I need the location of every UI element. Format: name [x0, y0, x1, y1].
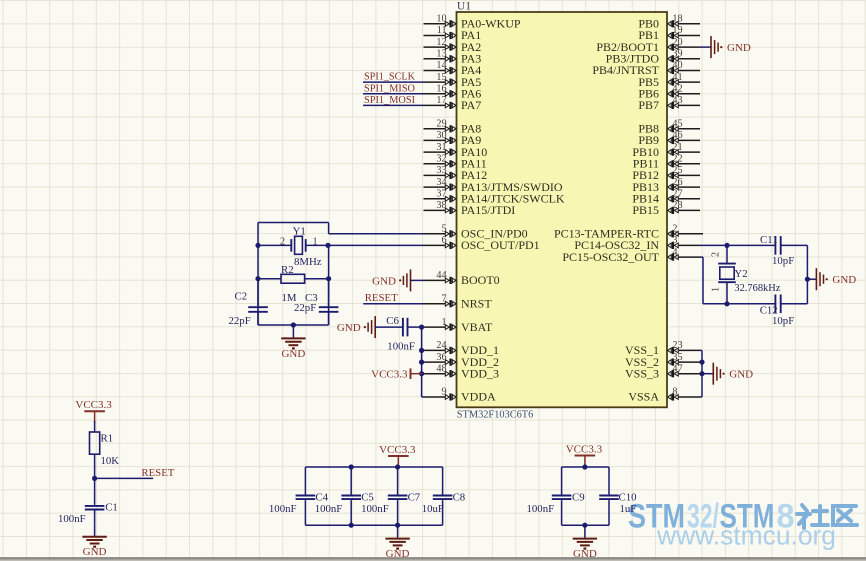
capacitor C2 22pF — [229, 279, 268, 327]
svg-text:18: 18 — [672, 14, 682, 25]
power VCC3.3 at VDD_3 — [371, 368, 421, 380]
wire OSC bottom — [258, 324, 329, 326]
svg-text:23: 23 — [672, 340, 682, 351]
pin 12 left — [424, 37, 456, 51]
svg-text:4: 4 — [672, 247, 677, 258]
wire BOOT0 pin 44 — [411, 279, 424, 281]
svg-text:PC15-OSC32_OUT: PC15-OSC32_OUT — [562, 250, 659, 264]
svg-text:SPI1_MISO: SPI1_MISO — [364, 82, 415, 94]
pin 8 right — [668, 387, 700, 401]
pin 46 right — [668, 130, 700, 144]
junction VCC C7 top — [395, 464, 400, 469]
svg-text:VDDA: VDDA — [461, 390, 496, 404]
svg-text:GND: GND — [727, 42, 751, 54]
pin 48 left — [424, 363, 456, 377]
crystal Y2 32.768kHz — [711, 245, 781, 303]
pin 27 right — [668, 189, 700, 203]
svg-text:GND: GND — [281, 348, 305, 360]
capacitor C5 100nF — [315, 467, 374, 525]
svg-text:16: 16 — [436, 84, 446, 95]
capacitor C10 1uF — [599, 467, 636, 525]
svg-text:NRST: NRST — [461, 296, 492, 310]
power VCC3.3 at R1 — [75, 399, 112, 423]
junction C5 top — [349, 464, 354, 469]
svg-text:15: 15 — [436, 72, 446, 83]
pin 13 left — [424, 49, 456, 63]
pin 47 right — [668, 363, 700, 377]
svg-text:BOOT0: BOOT0 — [461, 273, 500, 287]
svg-text:11: 11 — [437, 25, 447, 36]
svg-text:32.768kHz: 32.768kHz — [734, 282, 780, 294]
svg-text:29: 29 — [436, 119, 446, 130]
svg-text:5: 5 — [442, 224, 447, 235]
wire right vertical — [328, 245, 330, 325]
svg-text:38: 38 — [436, 200, 446, 211]
net label RESET at NRST — [363, 292, 423, 304]
svg-text:2: 2 — [672, 224, 677, 235]
pin 10 left — [424, 14, 456, 28]
junction VSS_2 — [699, 360, 704, 365]
svg-text:Y2: Y2 — [734, 268, 747, 280]
wire VDD_3 pin 48 — [422, 373, 424, 375]
svg-text:100nF: 100nF — [58, 513, 86, 525]
pin 20 right — [668, 37, 700, 51]
pin 41 right — [668, 72, 700, 86]
svg-text:8: 8 — [672, 387, 677, 398]
wire C4-C8 top rail — [305, 466, 442, 468]
wire to Y2 ground — [807, 278, 816, 280]
svg-text:OSC_OUT/PD1: OSC_OUT/PD1 — [461, 238, 540, 252]
svg-text:SPI1_SCLK: SPI1_SCLK — [364, 71, 415, 83]
svg-text:100nF: 100nF — [387, 340, 415, 352]
svg-text:PA7: PA7 — [461, 98, 481, 112]
capacitor C1 100nF — [58, 478, 118, 524]
svg-text:www.stmcu.org: www.stmcu.org — [656, 521, 836, 551]
sheet bottom border — [0, 557, 866, 561]
pin 36 left — [424, 352, 456, 366]
pin 16 left — [424, 84, 456, 98]
svg-text:100nF: 100nF — [269, 503, 297, 515]
pin 34 left — [424, 177, 456, 191]
wire PB2 to ground — [700, 46, 711, 48]
pin 7 left — [424, 293, 456, 307]
svg-text:1uF: 1uF — [620, 503, 637, 515]
svg-text:36: 36 — [436, 352, 446, 363]
ground GND at C6 — [337, 316, 375, 338]
junction RESET node — [92, 476, 97, 481]
svg-text:C10: C10 — [619, 491, 637, 503]
svg-text:19: 19 — [672, 25, 682, 36]
junction right crystal — [325, 243, 330, 248]
wire PC15 down — [700, 257, 703, 304]
junction VSS_3 — [699, 371, 704, 376]
svg-text:47: 47 — [672, 363, 682, 374]
crystal Y1 8MHz — [258, 226, 329, 269]
wire right vertical to ground — [806, 245, 808, 303]
IC U1 STM32F103C6T6 body — [457, 0, 668, 420]
svg-text:30: 30 — [436, 130, 446, 141]
pin 17 left — [424, 95, 456, 109]
wire C9-C10 top rail — [562, 466, 609, 468]
svg-text:9: 9 — [442, 387, 447, 398]
pin 35 right — [668, 352, 700, 366]
svg-text:33: 33 — [436, 165, 446, 176]
junction VCC C9-C10 top — [582, 464, 587, 469]
junction left crystal — [255, 243, 260, 248]
svg-text:39: 39 — [672, 49, 682, 60]
svg-text:14: 14 — [436, 60, 446, 71]
capacitor C9 100nF — [527, 467, 585, 525]
svg-text:2: 2 — [711, 252, 722, 257]
svg-text:GND: GND — [83, 546, 107, 558]
svg-text:R1: R1 — [101, 433, 114, 445]
svg-text:25: 25 — [672, 165, 682, 176]
svg-text:27: 27 — [672, 189, 682, 200]
pin 38 left — [424, 200, 456, 214]
svg-text:7: 7 — [442, 293, 447, 304]
pin 28 right — [668, 200, 700, 214]
wire VSS bus vertical — [700, 350, 702, 397]
ground GND below Y1 — [281, 325, 305, 360]
svg-text:26: 26 — [672, 177, 682, 188]
capacitor C4 100nF — [269, 467, 329, 525]
svg-text:R2: R2 — [281, 264, 294, 276]
svg-text:17: 17 — [436, 95, 446, 106]
wire VBAT pin 1 — [422, 326, 424, 328]
svg-text:6: 6 — [442, 235, 447, 246]
svg-text:C8: C8 — [453, 491, 466, 503]
svg-text:42: 42 — [672, 84, 682, 95]
capacitor C7 100nF — [361, 467, 421, 525]
resistor R1 10K — [90, 432, 120, 467]
wire bottom node — [703, 303, 807, 305]
svg-text:10pF: 10pF — [772, 315, 794, 327]
pin 37 left — [424, 189, 456, 203]
net label SPI1_MISO — [363, 82, 424, 94]
svg-text:10pF: 10pF — [772, 255, 794, 267]
capacitor C11 10pF — [760, 234, 794, 267]
power VCC3.3 at C4-C8 group — [379, 444, 416, 467]
wire left vertical — [257, 223, 259, 326]
pin 31 left — [424, 142, 456, 156]
svg-text:2: 2 — [280, 237, 285, 248]
svg-text:46: 46 — [672, 130, 682, 141]
junction C5 bottom — [349, 523, 354, 528]
net label SPI1_SCLK — [363, 71, 424, 83]
ground GND below C1 — [82, 523, 106, 558]
pin 21 right — [668, 142, 700, 156]
svg-text:Y1: Y1 — [293, 226, 306, 238]
capacitor C3 22pF — [294, 279, 338, 325]
svg-text:C2: C2 — [235, 291, 248, 303]
svg-text:28: 28 — [672, 200, 682, 211]
resistor R2 1M — [258, 264, 329, 304]
svg-text:VCC3.3: VCC3.3 — [75, 399, 112, 411]
pin 23 right — [668, 340, 700, 354]
pin 45 right — [668, 119, 700, 133]
wire R1 to junction — [94, 454, 96, 478]
pin 33 left — [424, 165, 456, 179]
pin 1 left — [424, 317, 456, 331]
svg-text:1: 1 — [442, 317, 447, 328]
junction Y2 ground — [805, 277, 810, 282]
pin 30 left — [424, 130, 456, 144]
svg-text:1: 1 — [312, 237, 317, 248]
junction GND C9-C10 bottom — [582, 523, 587, 528]
power VCC3.3 at C9-C10 group — [566, 443, 603, 467]
svg-text:100nF: 100nF — [315, 503, 343, 515]
wire VDD bus vertical — [422, 327, 424, 397]
svg-text:STM32F103C6T6: STM32F103C6T6 — [457, 409, 534, 421]
wire VDD_2 pin 36 — [422, 361, 424, 363]
wire crystal right to OSC_OUT pin 6 — [328, 244, 424, 246]
svg-text:VCC3.3: VCC3.3 — [379, 444, 416, 456]
svg-text:100nF: 100nF — [527, 503, 555, 515]
junction VDD_2 — [419, 360, 424, 365]
svg-text:22: 22 — [672, 154, 682, 165]
wire C9-C10 bottom rail — [562, 524, 609, 526]
svg-text:21: 21 — [672, 142, 682, 153]
watermark STM32/STM8 community logo — [628, 498, 857, 551]
svg-text:20: 20 — [672, 37, 682, 48]
svg-text:41: 41 — [672, 72, 682, 83]
svg-text:10: 10 — [436, 14, 446, 25]
svg-text:C6: C6 — [386, 315, 399, 327]
junction left R2 — [255, 276, 260, 281]
svg-text:VSSA: VSSA — [628, 390, 659, 404]
svg-text:C4: C4 — [315, 491, 328, 503]
wire step to OSC_IN pin 5 — [329, 223, 424, 234]
svg-text:PA15/JTDI: PA15/JTDI — [461, 203, 515, 217]
pin 5 left — [424, 224, 456, 238]
svg-text:C11: C11 — [760, 234, 778, 246]
svg-text:SPI1_MOSI: SPI1_MOSI — [364, 94, 415, 106]
svg-text:1: 1 — [711, 287, 722, 292]
svg-text:10K: 10K — [101, 455, 120, 467]
svg-text:VCC3.3: VCC3.3 — [566, 443, 603, 455]
svg-text:U1: U1 — [457, 0, 471, 12]
svg-text:C1: C1 — [105, 502, 118, 514]
svg-text:10uF: 10uF — [422, 503, 444, 515]
pin 22 right — [668, 154, 700, 168]
svg-text:32: 32 — [436, 154, 446, 165]
junction Y2 top — [724, 243, 729, 248]
pin 6 left — [424, 235, 456, 249]
svg-text:100nF: 100nF — [361, 503, 389, 515]
capacitor C12 10pF — [760, 295, 795, 328]
pin 24 left — [424, 340, 456, 354]
wire VSS_1 pin 23 — [700, 349, 702, 351]
pin 26 right — [668, 177, 700, 191]
ground GND at PB2 — [711, 36, 751, 58]
wire VSS_2 pin 35 — [700, 361, 702, 363]
svg-text:35: 35 — [672, 352, 682, 363]
pin 44 left — [424, 270, 456, 284]
svg-text:GND: GND — [337, 322, 361, 334]
ground GND at Y2 — [816, 268, 856, 290]
svg-text:GND: GND — [729, 369, 753, 381]
junction VDD_1 — [419, 348, 424, 353]
svg-text:12: 12 — [436, 37, 446, 48]
wire VDD_1 pin 24 — [422, 349, 424, 351]
svg-text:GND: GND — [832, 274, 856, 286]
svg-text:GND: GND — [372, 275, 396, 287]
svg-text:RESET: RESET — [141, 467, 174, 479]
svg-text:PB7: PB7 — [638, 98, 659, 112]
wire VSS_3 pin 47 — [700, 373, 713, 375]
pin 9 left — [424, 387, 456, 401]
junction OSC ground — [291, 322, 296, 327]
svg-text:22pF: 22pF — [294, 302, 316, 314]
junction GND C7 bottom — [395, 523, 400, 528]
svg-text:C5: C5 — [361, 491, 374, 503]
pin 43 right — [668, 95, 700, 109]
net label RESET — [95, 467, 175, 479]
pin 39 right — [668, 49, 700, 63]
ground GND below C7 — [385, 525, 409, 560]
ground GND at VSS — [713, 363, 753, 385]
svg-text:PB15: PB15 — [632, 203, 659, 217]
svg-text:RESET: RESET — [365, 292, 398, 304]
net label SPI1_MOSI — [363, 94, 424, 106]
wire VCC to R1 — [94, 421, 96, 432]
svg-text:8MHz: 8MHz — [294, 256, 322, 268]
svg-text:48: 48 — [436, 363, 446, 374]
pin 3 right — [668, 235, 700, 249]
svg-text:45: 45 — [672, 119, 682, 130]
svg-text:C7: C7 — [408, 491, 421, 503]
wire C4-C8 bottom rail — [305, 524, 442, 526]
svg-text:43: 43 — [672, 95, 682, 106]
ground GND below C9-C10 — [573, 525, 597, 560]
capacitor C8 10uF — [422, 467, 466, 525]
svg-text:22pF: 22pF — [229, 315, 251, 327]
pin 18 right — [668, 14, 700, 28]
pin 32 left — [424, 154, 456, 168]
svg-text:34: 34 — [436, 177, 446, 188]
ground GND at BOOT0 — [372, 269, 410, 291]
junction VDD_3 — [419, 371, 424, 376]
pin 14 left — [424, 60, 456, 74]
svg-text:24: 24 — [436, 340, 446, 351]
pin 4 right — [668, 247, 700, 261]
capacitor C6 100nF — [375, 315, 421, 353]
pin 11 left — [424, 25, 456, 39]
junction VBAT — [419, 325, 424, 330]
wire PC14 to C11 node — [700, 244, 807, 246]
pin 15 left — [424, 72, 456, 86]
svg-text:40: 40 — [672, 60, 682, 71]
pin 40 right — [668, 60, 700, 74]
svg-text:13: 13 — [436, 49, 446, 60]
junction Y2 bottom — [724, 301, 729, 306]
svg-text:VSS_3: VSS_3 — [625, 366, 659, 380]
svg-text:44: 44 — [436, 270, 446, 281]
svg-text:VDD_3: VDD_3 — [461, 366, 499, 380]
svg-text:C9: C9 — [572, 491, 585, 503]
svg-text:31: 31 — [436, 142, 446, 153]
pin 2 right — [668, 224, 703, 238]
svg-text:3: 3 — [672, 235, 677, 246]
pin 25 right — [668, 165, 700, 179]
wire OSC loop top — [258, 222, 329, 224]
pin 42 right — [668, 84, 700, 98]
svg-text:VCC3.3: VCC3.3 — [371, 369, 408, 381]
svg-text:VBAT: VBAT — [461, 320, 493, 334]
junction right R2 — [326, 276, 331, 281]
svg-text:37: 37 — [436, 189, 446, 200]
pin 19 right — [668, 25, 700, 39]
pin 29 left — [424, 119, 456, 133]
